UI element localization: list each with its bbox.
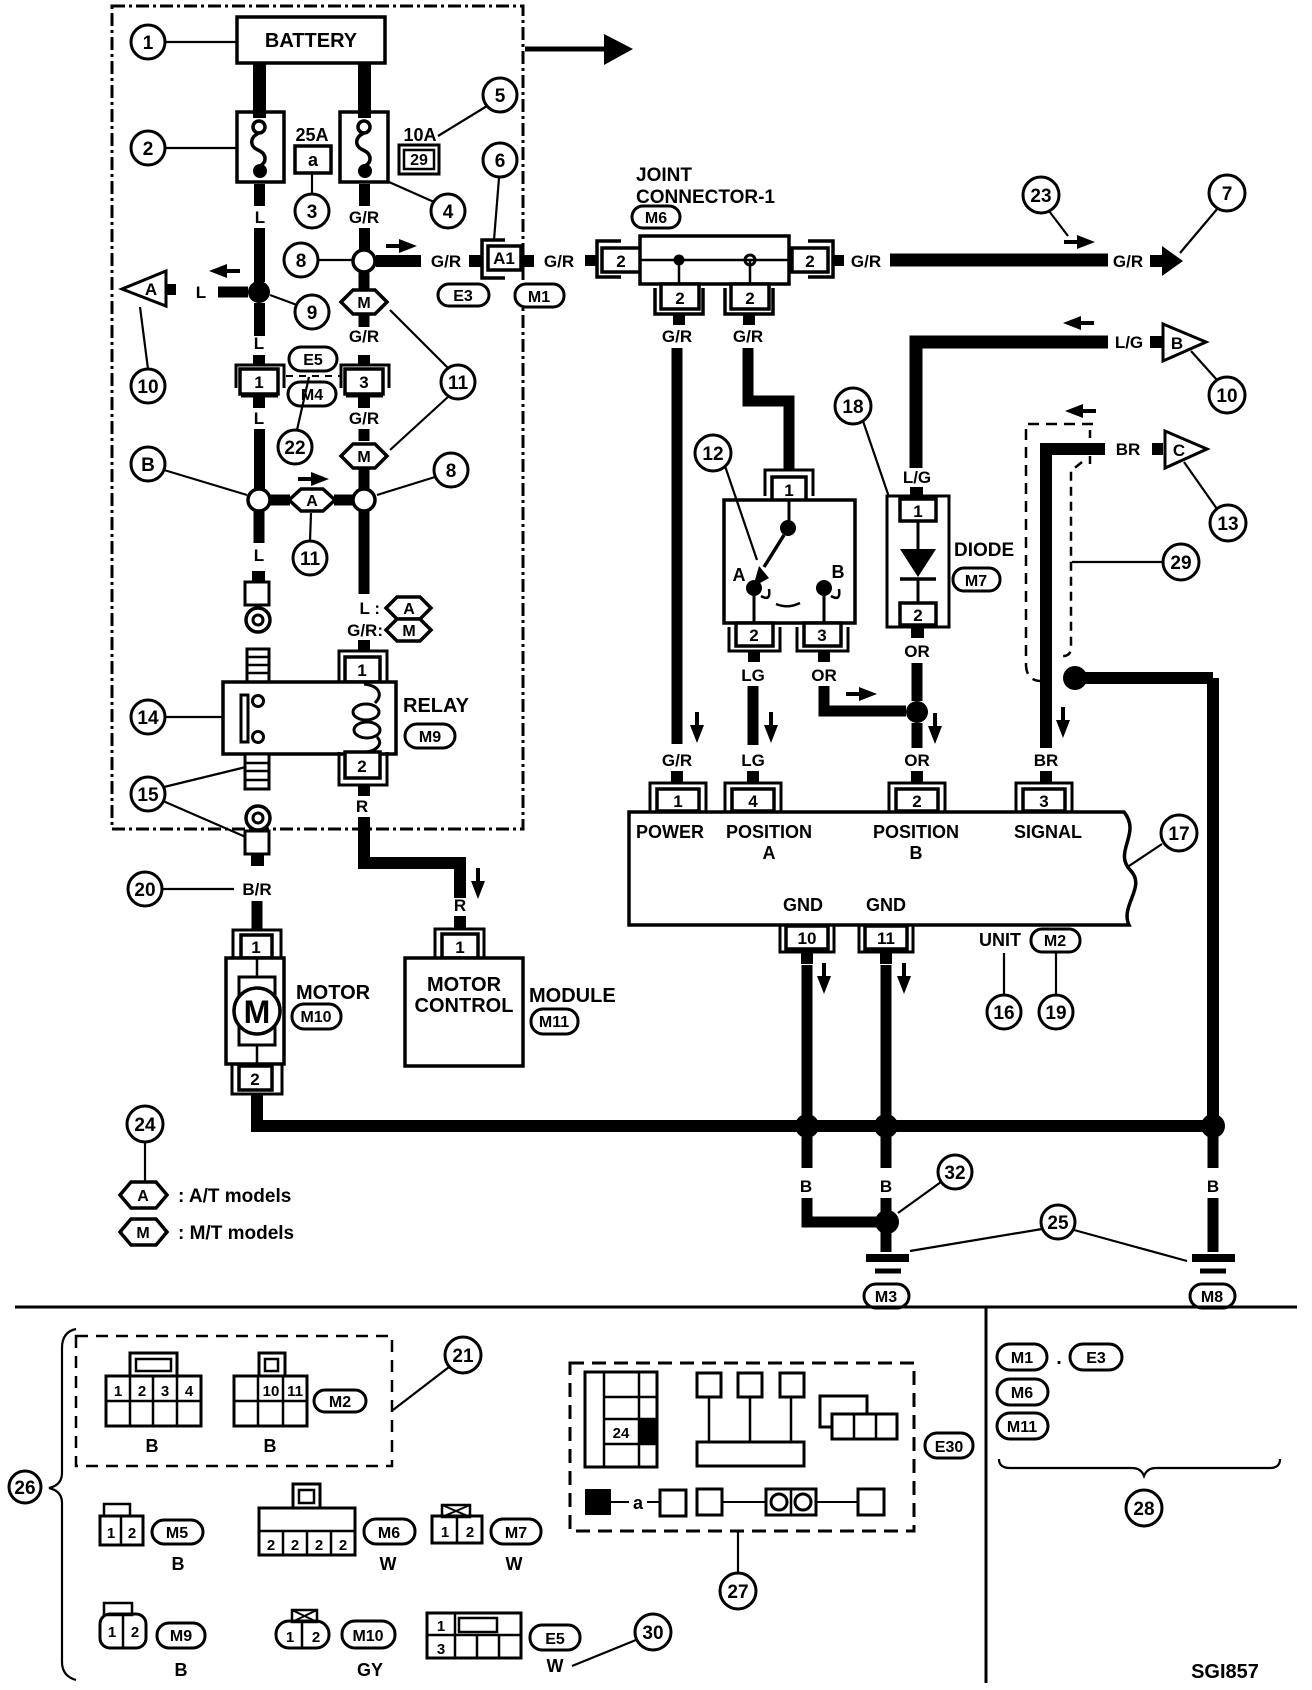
svg-text:24: 24	[613, 1425, 630, 1442]
unit tag M2	[1031, 929, 1080, 952]
motor pin 1	[233, 930, 281, 958]
arrow left above L stub	[209, 264, 240, 278]
motor M10 body	[226, 958, 284, 1064]
svg-text:L: L	[255, 208, 265, 227]
svg-text:1: 1	[251, 938, 260, 957]
svg-text:DIODE: DIODE	[954, 540, 1014, 561]
svg-text:10: 10	[798, 929, 817, 948]
svg-text:5: 5	[495, 86, 506, 107]
svg-text:2: 2	[128, 1525, 136, 1542]
BR wire from arrow C	[1046, 449, 1105, 748]
wire L down	[254, 429, 265, 489]
svg-text:1: 1	[114, 1383, 122, 1400]
svg-text:18: 18	[842, 397, 863, 418]
svg-text:23: 23	[1030, 186, 1051, 207]
svg-text:8: 8	[446, 461, 457, 482]
intermittent wiper switch body	[724, 500, 855, 623]
svg-text:E3: E3	[1086, 1350, 1106, 1367]
striped link below relay contact	[245, 754, 269, 789]
node junction dot on L wire	[248, 281, 270, 303]
svg-text:1: 1	[455, 938, 464, 957]
tag E5	[530, 1625, 580, 1650]
svg-text:G/R: G/R	[1113, 252, 1143, 271]
svg-text:A: A	[137, 1188, 149, 1205]
svg-text:M11: M11	[1007, 1419, 1037, 1436]
motor pin 2	[232, 1064, 282, 1094]
svg-text:BR: BR	[1034, 751, 1059, 770]
callout circle 24	[127, 1106, 163, 1181]
callout circle 23	[1023, 177, 1068, 236]
unit pin 11	[859, 925, 913, 964]
dashed box around M2 views	[76, 1336, 392, 1466]
arrow down LG	[764, 712, 778, 743]
tag E30	[925, 1433, 973, 1458]
svg-text:POWER: POWER	[636, 822, 704, 842]
dashed harness boundary outer	[1026, 424, 1093, 681]
wire stub into joint connector left	[585, 255, 596, 266]
svg-text:BR: BR	[1116, 440, 1141, 459]
svg-text:A1: A1	[493, 249, 515, 268]
svg-text:POSITION: POSITION	[873, 822, 959, 842]
wire B middle to ground	[881, 1198, 892, 1252]
relay box view	[820, 1396, 897, 1439]
svg-text:30: 30	[642, 1623, 663, 1644]
node open circle left	[248, 489, 270, 511]
right panel tag M1	[997, 1344, 1047, 1370]
callout circle 3	[295, 174, 329, 228]
svg-text:2: 2	[131, 1624, 139, 1641]
joint connector pin 2 right	[792, 241, 844, 277]
battery B1	[237, 17, 385, 63]
svg-text:1: 1	[108, 1624, 116, 1641]
svg-text:24: 24	[134, 1115, 156, 1136]
callout circle 11 (lower)	[293, 513, 327, 575]
svg-text:3: 3	[307, 202, 318, 223]
wire L to junction	[254, 228, 265, 282]
svg-text:OR: OR	[904, 751, 930, 770]
svg-text:1: 1	[107, 1525, 115, 1542]
link chain view	[697, 1489, 884, 1515]
wire L above connector	[254, 303, 265, 336]
svg-text:16: 16	[993, 1003, 1014, 1024]
svg-text:B: B	[1207, 1177, 1219, 1196]
svg-text:A: A	[145, 280, 157, 299]
callout circle 5	[438, 78, 517, 136]
svg-text:M: M	[244, 994, 271, 1030]
svg-text:29: 29	[410, 152, 428, 169]
legend hexagon M	[120, 1219, 294, 1245]
section separator line	[15, 1306, 1297, 1309]
callout circle 7	[1180, 175, 1245, 253]
svg-text:11: 11	[448, 373, 469, 394]
svg-text:M9: M9	[419, 729, 441, 746]
connector face E5	[427, 1613, 521, 1658]
connector face M5	[100, 1504, 143, 1545]
joint connector pin 2 bottom left	[655, 284, 703, 325]
svg-text:11: 11	[300, 549, 321, 570]
inline connector crossing border	[245, 831, 269, 854]
wire stub into module	[454, 916, 466, 928]
svg-text:B: B	[141, 455, 155, 476]
svg-text:M: M	[357, 295, 370, 312]
wire GND pin10 down	[802, 965, 813, 1120]
svg-text:13: 13	[1217, 514, 1238, 535]
svg-text:: A/T models: : A/T models	[178, 1186, 291, 1207]
motor tag M10	[292, 1004, 341, 1029]
svg-text:L/G: L/G	[1115, 333, 1143, 352]
wire G/R to unit power	[672, 348, 683, 744]
svg-text:M10: M10	[300, 1009, 331, 1026]
callout circle 17	[1129, 815, 1197, 866]
svg-text:G/R: G/R	[349, 208, 379, 227]
svg-text:2: 2	[250, 1070, 259, 1089]
wire stub into diode	[910, 487, 923, 497]
switch pin 1	[765, 470, 813, 501]
svg-text:W: W	[506, 1554, 523, 1574]
callout circle 22	[278, 377, 312, 464]
harness boundary dash-dot box (engine compartment)	[112, 6, 523, 829]
svg-text:UNIT: UNIT	[979, 930, 1021, 950]
tag M9	[157, 1623, 205, 1648]
hexagon A (A/T) between nodes	[289, 489, 335, 511]
svg-text:2: 2	[143, 139, 154, 160]
connector face M10	[276, 1610, 329, 1648]
wire G/R below right fuse	[359, 184, 370, 206]
svg-text:3: 3	[1039, 792, 1048, 811]
module pin 1	[435, 929, 484, 958]
wire OR elbow to junction	[824, 686, 906, 711]
wire stub left to hexagon A	[270, 495, 290, 506]
svg-text:G/R: G/R	[733, 327, 763, 346]
svg-text:2: 2	[749, 626, 758, 645]
svg-text:M: M	[357, 449, 370, 466]
svg-text:L: L	[254, 546, 264, 565]
fusible link F1 (left)	[237, 112, 284, 182]
wire G/R below right node	[359, 511, 370, 594]
svg-text:M6: M6	[645, 210, 667, 227]
svg-text:M: M	[136, 1225, 149, 1242]
svg-text:11: 11	[287, 1383, 303, 1400]
svg-text:28: 28	[1133, 1499, 1154, 1520]
callout circle 16	[987, 953, 1021, 1029]
connector face M6	[259, 1484, 355, 1555]
svg-text:LG: LG	[741, 751, 765, 770]
wire L below left node	[254, 511, 265, 543]
svg-text:M8: M8	[1201, 1289, 1223, 1306]
svg-text:M10: M10	[352, 1628, 383, 1645]
svg-text:R: R	[454, 896, 466, 915]
wire G/R long to arrow 7	[890, 254, 1108, 267]
svg-text:B: B	[172, 1554, 185, 1574]
svg-text:M5: M5	[166, 1525, 188, 1542]
svg-text:4: 4	[443, 202, 454, 223]
svg-text:17: 17	[1168, 824, 1189, 845]
wire below hexagon	[359, 314, 370, 327]
wire down right side	[1207, 678, 1219, 1120]
svg-text:11: 11	[877, 929, 895, 948]
svg-text:B: B	[800, 1177, 812, 1196]
svg-text:3: 3	[161, 1383, 169, 1400]
svg-text:M6: M6	[1011, 1385, 1033, 1402]
svg-text:M2: M2	[329, 1394, 351, 1411]
svg-text:OR: OR	[904, 642, 930, 661]
wire battery left	[253, 63, 266, 118]
relay tag M9	[405, 724, 455, 748]
svg-text:B/R: B/R	[242, 880, 271, 899]
svg-text:4: 4	[185, 1383, 194, 1400]
callout circle 14	[131, 700, 223, 734]
fuse rating 10A box 29	[399, 125, 439, 174]
relay pin 2	[339, 752, 387, 796]
svg-text:M1: M1	[528, 289, 550, 306]
arrow down beside pin10 wire	[817, 963, 831, 994]
fusible link holder view	[697, 1373, 804, 1466]
callout circle 6	[483, 143, 517, 240]
wire L below left fuse	[254, 184, 265, 206]
svg-text:G/R: G/R	[431, 252, 461, 271]
node open circle right	[353, 489, 375, 511]
wire B middle below bus	[881, 1132, 892, 1168]
svg-text:2: 2	[267, 1537, 275, 1554]
callout circle 9	[270, 295, 329, 329]
svg-text:MOTOR: MOTOR	[296, 982, 371, 1004]
svg-text:2: 2	[339, 1537, 347, 1554]
callout circle 20	[128, 872, 234, 906]
callout circle 8 (second)	[377, 453, 468, 495]
wire stub below	[251, 854, 264, 866]
svg-text:R: R	[356, 797, 368, 816]
arrow down beside R wire	[471, 868, 485, 899]
joint connector pin 2 bottom right	[725, 284, 773, 325]
svg-text:9: 9	[307, 303, 318, 324]
callout circle 32	[898, 1155, 972, 1213]
svg-text:M11: M11	[539, 1014, 569, 1031]
svg-text:W: W	[380, 1554, 397, 1574]
wire R relay to module	[364, 817, 460, 898]
svg-text:G/R:: G/R:	[347, 621, 383, 640]
svg-text:2: 2	[312, 1629, 320, 1646]
arrow right on OR elbow	[846, 687, 877, 701]
svg-text:27: 27	[727, 1582, 748, 1603]
relay M9 body	[223, 682, 396, 754]
wire splice to right	[1085, 672, 1213, 684]
svg-text:6: 6	[495, 151, 506, 172]
svg-text:29: 29	[1170, 553, 1191, 574]
svg-text:2: 2	[315, 1537, 323, 1554]
wire B elbow to splice 32	[807, 1198, 878, 1222]
switch pin 3	[797, 623, 848, 662]
wire G/R to junction	[359, 228, 370, 250]
arrow right on G/R wire	[1064, 235, 1095, 249]
connector face M9	[100, 1603, 146, 1648]
splice dot 32	[875, 1210, 899, 1234]
svg-text:20: 20	[134, 880, 155, 901]
svg-text:G/R: G/R	[349, 327, 379, 346]
wire stub hexagon A to right node	[334, 495, 353, 506]
svg-text:19: 19	[1045, 1003, 1066, 1024]
svg-text:4: 4	[748, 792, 758, 811]
svg-text:MODULE: MODULE	[529, 985, 616, 1007]
wire G/R below hexagon	[359, 469, 370, 489]
callout circle 25	[910, 1205, 1187, 1261]
callout circle 28	[1126, 1490, 1162, 1526]
svg-text:GND: GND	[866, 895, 906, 915]
connector face M7	[432, 1505, 482, 1543]
connector pin 1 (E5/M4 pair)	[236, 355, 284, 408]
wire L/G from arrow B to diode	[916, 342, 1108, 468]
svg-text:L: L	[254, 409, 264, 428]
svg-text:a: a	[308, 150, 319, 170]
hexagon M (M/T) second on G/R	[341, 444, 387, 468]
arrow down G/R	[690, 712, 704, 743]
callout circle 4	[389, 182, 465, 228]
svg-text:M2: M2	[1044, 933, 1066, 950]
svg-text:BATTERY: BATTERY	[265, 30, 358, 52]
fusible link F2 (right)	[340, 112, 388, 182]
svg-text:B: B	[175, 1660, 188, 1680]
horizontal brace 28	[999, 1459, 1280, 1476]
svg-text:G/R: G/R	[662, 751, 692, 770]
connector arrow C (sheet)	[1152, 431, 1207, 468]
wire stub into A1	[469, 255, 482, 267]
wire stub left from dot	[218, 287, 248, 298]
svg-text:: M/T models: : M/T models	[178, 1223, 294, 1244]
connector A1	[482, 240, 534, 278]
svg-text:2: 2	[805, 252, 814, 271]
svg-text:E30: E30	[935, 1439, 964, 1456]
wire stub into relay pin 1	[358, 640, 370, 651]
svg-text:22: 22	[284, 438, 305, 459]
callout circle 11 (upper)	[390, 310, 475, 450]
svg-text:M7: M7	[505, 1525, 527, 1542]
diode tag M7	[953, 568, 1000, 591]
arrow right toward A1	[386, 239, 417, 253]
svg-text:POSITION: POSITION	[726, 822, 812, 842]
svg-text:2: 2	[291, 1537, 299, 1554]
callout circle 15	[131, 767, 248, 838]
wiper amplifier unit box	[629, 812, 1136, 925]
arrow left above dashed boundary	[1065, 404, 1096, 418]
svg-text:2: 2	[745, 289, 754, 308]
callout circle 18	[835, 388, 889, 497]
svg-text:3: 3	[437, 1641, 445, 1658]
fuse rating 25A label a	[295, 125, 331, 173]
svg-text:14: 14	[137, 708, 159, 729]
tag M7	[491, 1519, 541, 1544]
connector tag M4	[288, 382, 336, 406]
joint connector tag M6	[632, 206, 680, 228]
wire G/R down	[359, 429, 370, 441]
svg-text:L/G: L/G	[903, 468, 931, 487]
svg-text:A: A	[403, 601, 415, 618]
svg-text:G/R: G/R	[851, 252, 881, 271]
svg-text:E5: E5	[303, 352, 323, 369]
svg-text:2: 2	[913, 606, 922, 625]
arrow right above hexagon A	[298, 472, 329, 486]
svg-text:MOTOR: MOTOR	[427, 974, 502, 996]
svg-text:1: 1	[254, 373, 263, 392]
svg-text:GY: GY	[357, 1660, 383, 1680]
dashed box E30 views	[570, 1363, 914, 1531]
callout circle 2	[131, 131, 237, 165]
svg-text:2: 2	[466, 1524, 474, 1541]
wire G/R to switch	[748, 348, 789, 471]
callout circle 27	[720, 1532, 756, 1609]
callout circle 1	[131, 25, 237, 59]
svg-text:2: 2	[138, 1383, 146, 1400]
wire stubs into unit pins	[671, 771, 683, 783]
svg-text:1: 1	[143, 33, 154, 54]
svg-text:G/R: G/R	[662, 327, 692, 346]
wire OR diode to splice	[912, 663, 923, 701]
svg-text:M3: M3	[875, 1289, 897, 1306]
arrow left above L/G	[1063, 316, 1094, 330]
right panel tag M11	[997, 1413, 1048, 1439]
svg-text:32: 32	[944, 1163, 965, 1184]
right panel tag M6	[997, 1379, 1048, 1405]
svg-text:CONTROL: CONTROL	[415, 995, 514, 1017]
splice dot BR to ground branch	[1063, 666, 1087, 690]
svg-text:25: 25	[1047, 1213, 1069, 1234]
wire battery right	[358, 63, 371, 118]
svg-text:3: 3	[359, 373, 368, 392]
svg-text:A: A	[733, 565, 746, 585]
hexagon M (M/T models)	[386, 619, 431, 641]
connector arrow 7 (sheet continuation)	[1150, 246, 1183, 276]
harness split dashed line	[286, 375, 340, 377]
svg-text:M7: M7	[965, 573, 987, 590]
ring terminal	[246, 608, 270, 632]
svg-text:JOINT: JOINT	[636, 165, 692, 186]
motor control module M11	[405, 958, 523, 1066]
callout circle 26 with brace	[9, 1329, 76, 1680]
connector tag M1	[515, 284, 564, 307]
connector arrow B (sheet)	[1150, 324, 1206, 361]
tag M10	[342, 1621, 395, 1648]
svg-text:LG: LG	[741, 666, 765, 685]
connector tag E5	[289, 347, 337, 371]
callout circle 10	[131, 307, 165, 403]
module tag M11	[531, 1009, 578, 1034]
svg-text:1: 1	[441, 1524, 449, 1541]
callout circle 10 right	[1191, 351, 1245, 413]
svg-text:SIGNAL: SIGNAL	[1014, 822, 1082, 842]
connector pin 3 (E5/M4 pair)	[341, 355, 389, 408]
callout circle 13	[1184, 462, 1246, 541]
dashed harness boundary inner	[1060, 462, 1082, 656]
vertical divider line	[985, 1307, 988, 1683]
svg-text:M: M	[402, 623, 415, 640]
connector arrow A (to sheet A)	[122, 271, 176, 306]
connector face M2 4-pin	[106, 1353, 201, 1426]
callout circle 8	[284, 243, 352, 277]
unit pin 1	[650, 783, 706, 812]
arrow down beside BR	[1056, 707, 1070, 738]
svg-text:1: 1	[357, 661, 366, 680]
svg-text:B: B	[832, 562, 845, 582]
wire LG down	[748, 686, 759, 745]
svg-text:G/R: G/R	[349, 409, 379, 428]
svg-text:3: 3	[817, 626, 826, 645]
right panel tag E3	[1070, 1344, 1122, 1370]
svg-text:1: 1	[673, 792, 682, 811]
svg-text:.: .	[1056, 1347, 1062, 1369]
svg-text:2: 2	[675, 289, 684, 308]
tag M6	[364, 1519, 415, 1544]
svg-text:M6: M6	[378, 1525, 400, 1542]
svg-text:2: 2	[357, 757, 366, 776]
unit pin 10	[780, 925, 834, 964]
